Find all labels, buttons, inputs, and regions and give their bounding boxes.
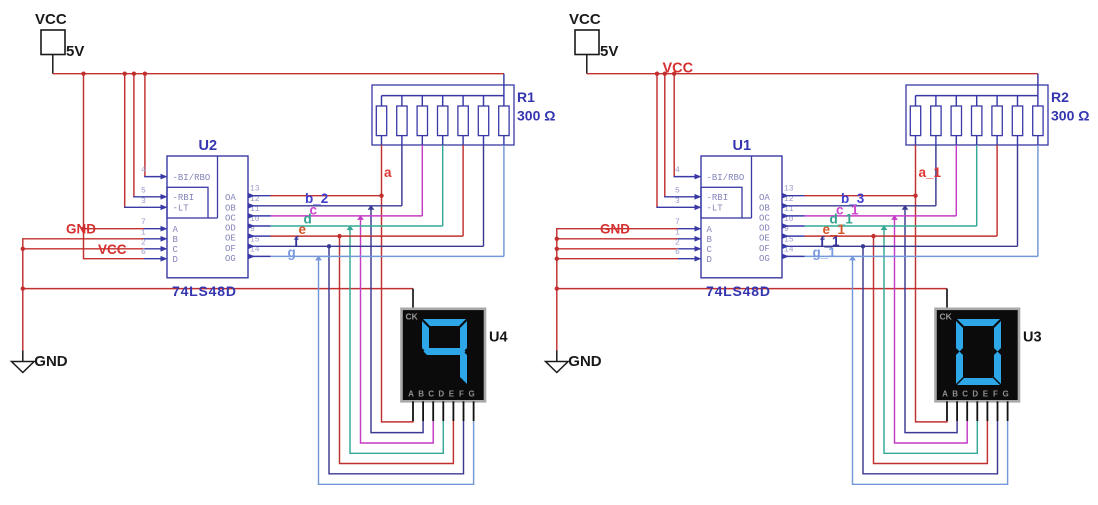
svg-text:300 Ω: 300 Ω (517, 108, 555, 124)
svg-text:1: 1 (141, 228, 146, 237)
junction dot net f_1 (861, 244, 865, 248)
svg-text:-RBI: -RBI (173, 193, 195, 203)
svg-text:4: 4 (141, 166, 146, 175)
svg-text:D: D (707, 255, 712, 265)
wire VCC rail to U2 pin 5 (133, 74, 162, 197)
svg-text:OF: OF (225, 244, 236, 254)
svg-text:a: a (384, 165, 392, 180)
svg-text:F: F (459, 389, 464, 398)
svg-text:-LT: -LT (173, 204, 190, 214)
wire net e_1 : U1 OE to R2 and U3 E (805, 145, 998, 464)
junction dots on VCC rail (81, 72, 147, 76)
svg-text:-BI/RBO: -BI/RBO (173, 173, 211, 183)
svg-text:6: 6 (141, 248, 146, 257)
junction dots on GND column at pins B,C,D (555, 237, 559, 261)
svg-text:OB: OB (225, 203, 236, 213)
wire VCC rail to U2 pin 3 (124, 74, 162, 208)
svg-text:13: 13 (250, 185, 260, 194)
svg-text:300 Ω: 300 Ω (1051, 108, 1089, 124)
input pin arrowheads (695, 174, 702, 262)
svg-text:5: 5 (141, 186, 146, 195)
svg-text:GND: GND (600, 222, 630, 237)
svg-text:E: E (449, 389, 455, 398)
junction arrow net b_3 (902, 205, 909, 210)
junction arrow net c (357, 215, 364, 220)
svg-text:74LS48D: 74LS48D (706, 283, 771, 299)
junction dot GND column / CK wire (555, 286, 559, 290)
svg-text:CK: CK (406, 312, 419, 322)
wire GND net to U3 CK pin (557, 289, 947, 309)
wire net c_1 : U1 OC to R2 and U3 C (805, 145, 968, 443)
svg-text:7: 7 (675, 218, 680, 227)
svg-text:g: g (288, 245, 296, 260)
wire VCC rail to R2 (587, 74, 1038, 96)
svg-text:74LS48D: 74LS48D (172, 283, 237, 299)
svg-text:U4: U4 (489, 330, 508, 346)
junction arrow net d (347, 225, 354, 230)
svg-text:A: A (942, 389, 948, 398)
svg-text:OD: OD (225, 224, 236, 234)
svg-text:e: e (299, 222, 307, 237)
svg-text:D: D (173, 255, 178, 265)
junction dot GND column / CK wire (21, 286, 25, 290)
svg-text:a_1: a_1 (919, 165, 942, 180)
junction dot net e (337, 234, 341, 238)
svg-text:U2: U2 (199, 138, 218, 154)
svg-text:OE: OE (759, 234, 770, 244)
svg-text:CK: CK (940, 312, 953, 322)
svg-text:D: D (972, 389, 978, 398)
junction arrow net g_1 (849, 256, 856, 261)
svg-text:3: 3 (675, 197, 680, 206)
svg-text:B: B (418, 389, 424, 398)
svg-text:A: A (173, 225, 179, 235)
wire VCC rail to U1 pin 5 (664, 74, 696, 197)
svg-text:U3: U3 (1023, 330, 1042, 346)
svg-text:C: C (962, 389, 968, 398)
svg-text:OE: OE (225, 234, 236, 244)
svg-text:VCC: VCC (569, 11, 601, 28)
svg-text:B: B (707, 235, 713, 245)
display U4 pins A-G (413, 401, 474, 421)
resistor pack R1 300 Ohm (372, 85, 514, 145)
svg-text:C: C (707, 245, 713, 255)
wire net f : U2 OF to R1 and U4 F (271, 145, 484, 474)
power VCC source 5V (left half) (35, 11, 84, 74)
svg-text:G: G (1002, 389, 1008, 398)
decoder IC U1 74LS48D (701, 156, 782, 278)
svg-text:A: A (408, 389, 414, 398)
svg-text:C: C (428, 389, 434, 398)
svg-text:4: 4 (675, 166, 680, 175)
junction dot at VCC column / pin A wire (81, 227, 85, 231)
wire net g_1 : U1 OG to R2 and U3 G (805, 145, 1038, 484)
junction dot net e_1 (871, 234, 875, 238)
wire VCC rail to R1 (53, 74, 504, 96)
7-segment display U3 (936, 309, 1020, 402)
ground symbol GND (right half) (546, 351, 602, 373)
junction arrow net b_2 (368, 205, 375, 210)
wire GND net to U4 CK pin (23, 289, 413, 309)
svg-text:GND: GND (568, 353, 602, 370)
svg-text:3: 3 (141, 197, 146, 206)
ground symbol GND (left half) (12, 351, 68, 373)
svg-text:-RBI: -RBI (707, 193, 729, 203)
wire net b_2 : U2 OB to R1 and U4 B (271, 145, 424, 433)
svg-text:g_1: g_1 (813, 245, 837, 260)
svg-text:OB: OB (759, 203, 770, 213)
junction arrow net d_1 (881, 225, 888, 230)
output pin stubs and arrowheads (248, 193, 271, 259)
output pin stubs and arrowheads (782, 193, 805, 259)
svg-text:VCC: VCC (98, 242, 127, 257)
svg-text:OC: OC (225, 213, 236, 223)
svg-text:2: 2 (141, 238, 146, 247)
wire VCC rail to U1 pin 3 (656, 74, 696, 208)
wire net f_1 : U1 OF to R2 and U3 F (805, 145, 1018, 474)
svg-text:C: C (173, 245, 179, 255)
wire net c : U2 OC to R1 and U4 C (271, 145, 434, 443)
junction arrow net c_1 (891, 215, 898, 220)
wire net b_3 : U1 OB to R2 and U3 B (805, 145, 958, 433)
power VCC source 5V (right half) (569, 11, 618, 74)
svg-text:GND: GND (34, 353, 68, 370)
display U3 pins A-G (947, 401, 1008, 421)
svg-text:OG: OG (225, 254, 236, 264)
7-segment display U4 (402, 309, 486, 402)
wire net g : U2 OG to R1 and U4 G (271, 145, 504, 484)
svg-text:1: 1 (675, 228, 680, 237)
svg-text:OC: OC (759, 213, 770, 223)
svg-text:VCC: VCC (663, 61, 694, 77)
wire VCC column to U2 pins A and D (84, 74, 163, 259)
junction dot net f (327, 244, 331, 248)
svg-text:2: 2 (675, 238, 680, 247)
svg-text:F: F (993, 389, 998, 398)
wire VCC rail to U1 pin 4 (674, 74, 697, 177)
svg-text:VCC: VCC (35, 11, 67, 28)
decoder IC U2 74LS48D (167, 156, 248, 278)
wire net a_1 : U1 OA to R2 and U3 A (805, 145, 948, 422)
svg-text:E: E (983, 389, 989, 398)
svg-text:GND: GND (66, 222, 96, 237)
svg-text:D: D (438, 389, 444, 398)
svg-text:R1: R1 (517, 89, 535, 105)
input pin arrowheads (161, 174, 168, 262)
junction dot net a_1 (913, 194, 917, 198)
svg-text:-LT: -LT (707, 204, 724, 214)
svg-text:G: G (468, 389, 474, 398)
svg-text:OG: OG (759, 254, 770, 264)
wire GND column to U1 pins A,B,C,D (557, 229, 696, 351)
digit segments on U3 showing 0 (956, 319, 1001, 385)
svg-text:6: 6 (675, 248, 680, 257)
wire net a : U2 OA to R1 and U4 A (271, 145, 414, 422)
svg-text:5V: 5V (600, 43, 618, 60)
wire net d_1 : U1 OD to R2 and U3 D (805, 145, 978, 453)
svg-text:OA: OA (759, 193, 770, 203)
svg-text:B: B (952, 389, 958, 398)
resistor pack R2 300 Ohm (906, 85, 1048, 145)
junction dot GND column / pin C wire (21, 247, 25, 251)
junction arrow net g (315, 256, 322, 261)
svg-text:R2: R2 (1051, 89, 1069, 105)
wire VCC rail to U2 pin 4 (144, 74, 162, 177)
svg-text:OF: OF (759, 244, 770, 254)
svg-text:7: 7 (141, 218, 146, 227)
wire net e : U2 OE to R1 and U4 E (271, 145, 464, 464)
wire net d : U2 OD to R1 and U4 D (271, 145, 444, 453)
svg-text:OD: OD (759, 224, 770, 234)
svg-text:5V: 5V (66, 43, 84, 60)
svg-text:U1: U1 (733, 138, 752, 154)
junction dot net a (379, 194, 383, 198)
digit segments on U4 showing 9 (422, 319, 467, 384)
wire GND column to U2 pins B and C (23, 239, 162, 351)
svg-text:13: 13 (784, 185, 794, 194)
svg-text:OA: OA (225, 193, 236, 203)
svg-text:-BI/RBO: -BI/RBO (707, 173, 745, 183)
svg-text:A: A (707, 225, 713, 235)
svg-text:B: B (173, 235, 179, 245)
svg-text:5: 5 (675, 186, 680, 195)
junction dots on VCC rail (655, 72, 677, 76)
